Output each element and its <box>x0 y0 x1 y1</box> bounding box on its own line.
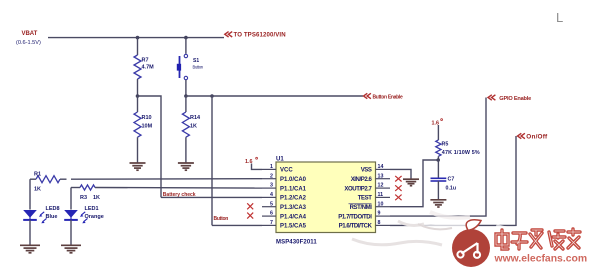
resistor R5 47K <box>436 140 480 160</box>
junction dot mid rail / S1-R14 <box>184 94 188 98</box>
port Button Enable <box>364 93 404 100</box>
wire battery check to pin4 <box>161 196 262 198</box>
svg-text:XIN/P2.6: XIN/P2.6 <box>351 177 373 183</box>
junction dot mid rail / R7-R10 <box>136 94 140 98</box>
wire pin10 RST to R5/C7 junction <box>390 160 438 207</box>
svg-text:9: 9 <box>378 211 381 217</box>
svg-text:P1.4/CA4: P1.4/CA4 <box>280 214 307 220</box>
wire Button Enable rail <box>186 95 363 97</box>
wire Button net vertical <box>211 96 213 225</box>
power 1.6V at R5 <box>432 119 443 140</box>
svg-text:P1.3/CA3: P1.3/CA3 <box>280 205 307 211</box>
wire pin9 to GPIO Enable <box>390 98 486 217</box>
svg-text:6: 6 <box>270 211 273 217</box>
svg-text:GPIO Enable: GPIO Enable <box>499 96 531 102</box>
pin stubs left 1-7 <box>262 169 276 225</box>
svg-text:L: L <box>556 10 563 25</box>
no-connect X pin11 <box>395 195 401 201</box>
LED8 Blue <box>23 179 59 244</box>
svg-text:11: 11 <box>378 192 384 198</box>
LED1 Orange <box>64 188 104 245</box>
svg-text:VBAT: VBAT <box>22 31 38 37</box>
resistor R10 10M <box>134 96 153 163</box>
svg-text:P1.0/CA0: P1.0/CA0 <box>280 177 307 183</box>
no-connect X pin12 <box>395 185 401 191</box>
svg-text:47K 1/10W 5%: 47K 1/10W 5% <box>442 150 480 156</box>
svg-text:7: 7 <box>270 220 273 226</box>
no-connect X pin5 <box>247 203 253 209</box>
svg-text:RST/NMI: RST/NMI <box>350 205 373 211</box>
net label VBAT <box>16 31 41 46</box>
svg-text:1K: 1K <box>34 187 41 193</box>
wire R3 to pin3 <box>95 187 262 190</box>
svg-text:VSS: VSS <box>361 168 372 174</box>
svg-text:3: 3 <box>270 183 273 189</box>
svg-text:8: 8 <box>378 220 381 226</box>
junction dot R5/C7 <box>436 158 440 162</box>
resistor R3 1K <box>71 185 100 201</box>
pin numbers right <box>378 164 384 226</box>
no-connect X pin6 <box>247 213 253 219</box>
svg-text:4.7M: 4.7M <box>142 65 155 71</box>
svg-text:TO TPS61200/VIN: TO TPS61200/VIN <box>234 32 286 39</box>
svg-text:13: 13 <box>378 173 384 179</box>
ground below R14 <box>178 163 194 170</box>
svg-text:TEST: TEST <box>358 196 372 202</box>
watermark grey squiggle <box>352 221 442 245</box>
resistor R14 1K <box>182 96 201 163</box>
svg-text:Orange: Orange <box>85 214 104 220</box>
svg-text:VCC: VCC <box>280 168 293 174</box>
svg-text:1K: 1K <box>93 195 100 201</box>
wire VBAT top rail <box>48 37 224 39</box>
ground below R10 <box>130 163 146 170</box>
power 1.6V at pin1 <box>245 157 262 169</box>
pin numbers left <box>270 164 273 226</box>
svg-text:C7: C7 <box>448 177 455 183</box>
svg-text:2: 2 <box>270 173 273 179</box>
svg-text:14: 14 <box>378 164 384 170</box>
IC U1 MSP430F2011 <box>276 156 376 245</box>
wire VSS to ground <box>390 169 411 178</box>
svg-text:0.1u: 0.1u <box>446 186 457 192</box>
pin labels left inside <box>280 168 307 230</box>
svg-text:P1.2/CA2: P1.2/CA2 <box>280 196 307 202</box>
capacitor C7 0.1u <box>431 160 457 199</box>
wire R1 to pin2 <box>71 178 262 181</box>
switch S1 Button <box>177 38 204 96</box>
watermark white cloud <box>412 212 598 273</box>
resistor R7 4.7M <box>134 38 154 96</box>
wire button to pin7 <box>212 224 262 226</box>
svg-text:5: 5 <box>270 201 273 207</box>
port GPIO Enable <box>488 95 531 102</box>
svg-text:LED8: LED8 <box>46 206 60 212</box>
ground below C7 <box>430 200 446 207</box>
svg-text:R10: R10 <box>142 115 152 121</box>
svg-text:LED1: LED1 <box>85 206 99 212</box>
junction dot mid rail / Button net <box>210 94 214 98</box>
ground VSS <box>403 179 419 186</box>
svg-text:P1.6/TDI/TCK: P1.6/TDI/TCK <box>339 224 373 230</box>
svg-text:R14: R14 <box>190 115 201 121</box>
ground below LED1 <box>61 245 81 253</box>
svg-text:R5: R5 <box>442 142 449 148</box>
wire battery-check stub (137 to 161, down) <box>138 96 162 197</box>
svg-text:10M: 10M <box>142 124 153 130</box>
svg-text:Blue: Blue <box>46 214 58 220</box>
overline RST <box>349 203 372 205</box>
svg-text:1: 1 <box>270 164 273 170</box>
svg-text:1K: 1K <box>190 124 197 130</box>
watermark chinese glyphs <box>496 229 580 249</box>
svg-text:www.elecfans.com: www.elecfans.com <box>494 254 588 265</box>
svg-text:(0.6-1.5V): (0.6-1.5V) <box>16 40 41 46</box>
svg-text:4: 4 <box>270 192 273 198</box>
junction dot top rail / S1 <box>184 36 188 40</box>
svg-text:Button: Button <box>193 65 204 70</box>
svg-text:P1.1/CA1: P1.1/CA1 <box>280 186 307 192</box>
pin labels right inside <box>338 168 372 230</box>
ground below LED8 <box>20 245 40 253</box>
pin stubs right 14-8 <box>376 169 391 225</box>
port TO TPS61200/VIN <box>225 32 286 39</box>
junction dot top rail / R7 <box>136 36 140 40</box>
svg-text:R3: R3 <box>80 195 87 201</box>
wire pin8 to On/Off <box>390 136 516 225</box>
svg-text:XOUT/P2.7: XOUT/P2.7 <box>344 186 372 192</box>
svg-text:Button: Button <box>214 216 229 222</box>
svg-text:MSP430F2011: MSP430F2011 <box>276 240 317 246</box>
svg-text:On/Off: On/Off <box>526 133 548 140</box>
port On/Off <box>518 133 549 140</box>
svg-text:Button Enable: Button Enable <box>373 94 404 100</box>
svg-text:10: 10 <box>378 201 384 207</box>
watermark logo circle <box>452 220 490 267</box>
svg-text:P1.7/TDO/TDI: P1.7/TDO/TDI <box>338 214 372 220</box>
svg-text:12: 12 <box>378 183 384 189</box>
svg-text:S1: S1 <box>193 58 199 64</box>
no-connect X pin13 <box>395 176 401 182</box>
svg-text:R7: R7 <box>142 58 149 64</box>
resistor R1 1K <box>30 172 67 193</box>
svg-text:P1.5/CA5: P1.5/CA5 <box>280 224 307 230</box>
